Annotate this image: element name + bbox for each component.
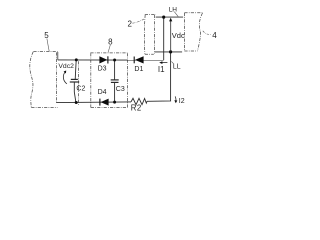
wire: LH horizontal line (156, 16, 183, 18)
capacitor C3 branch bottom (114, 83, 116, 102)
svg-text:2: 2 (128, 19, 133, 28)
diode D1 (points left, on top rail) (135, 56, 144, 63)
wire: bridge top rail (58, 59, 164, 61)
svg-text:Vdc2: Vdc2 (58, 63, 74, 70)
svg-text:C2: C2 (76, 85, 85, 92)
resistor R2 (131, 98, 147, 104)
leader for 2 (dash-dot) (132, 19, 144, 23)
capacitor C2 plates (71, 78, 78, 80)
junction node: C3 bottom (113, 101, 116, 104)
capacitor C2 branch bottom (74, 82, 76, 102)
box 5 (dash-dot enclosure, wavy left edge) (30, 52, 58, 108)
box 8 (dash-dot enclosure of bridge) (90, 53, 127, 108)
svg-text:I1: I1 (158, 65, 165, 74)
diode D3 (points right, on top rail) (99, 56, 107, 63)
svg-text:D3: D3 (98, 66, 107, 73)
divider line (dash-dot vertical at x 78.6) (78, 61, 80, 105)
wire: LL horizontal line (155, 51, 183, 53)
capacitor C3 branch top (114, 60, 116, 80)
junction node: C2 top (75, 58, 78, 61)
capacitor C3 plates (111, 79, 119, 81)
junction node: C2 bottom (75, 101, 78, 104)
Vdc2 measurement curved arrow (63, 72, 67, 84)
capacitor C2 branch top (75, 60, 76, 79)
svg-text:R2: R2 (131, 103, 142, 112)
wire: vertical from LH node down to bridge top rail (163, 17, 165, 60)
leader for 5 (47, 39, 49, 52)
box 2 (dash-dot enclosure, wavy left edge) (144, 15, 155, 55)
node: box-5 output corner stub (57, 52, 59, 60)
leader for LH (174, 12, 178, 17)
wire: bridge bottom rail (56, 101, 131, 104)
junction node: LL line (169, 50, 172, 53)
svg-text:Vdc: Vdc (172, 31, 185, 40)
svg-text:4: 4 (212, 31, 217, 40)
wire: from R2 to LL corner (147, 52, 171, 101)
svg-text:D4: D4 (98, 89, 107, 96)
leader for 4 (dash-dot) (203, 31, 212, 35)
svg-text:C3: C3 (116, 86, 125, 93)
current arrow I2 (points down, beside LL drop wire) (174, 96, 177, 101)
junction node: LH line (162, 16, 165, 19)
Vdc measurement arrow (170, 20, 172, 51)
svg-text:8: 8 (108, 38, 113, 47)
svg-text:LH: LH (169, 7, 178, 14)
svg-text:I2: I2 (179, 98, 185, 105)
svg-text:LL: LL (173, 64, 181, 71)
leader for 8 (108, 45, 110, 52)
svg-text:D1: D1 (134, 66, 143, 73)
diode D4 (points left, on bottom rail) (101, 99, 109, 106)
current arrow I1 (points left, under top rail right end) (161, 62, 168, 64)
junction node: C3 top (113, 59, 116, 62)
leader for LL (171, 61, 173, 63)
box 4 (dash-dot enclosure, wavy right edge) (184, 13, 202, 51)
